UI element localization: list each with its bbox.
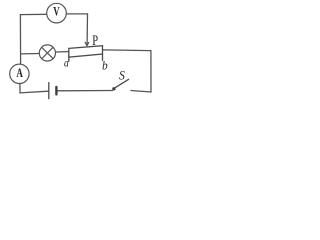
wire right edge vertical <box>150 51 152 92</box>
ammeter A circle <box>10 64 29 83</box>
wire top-right horizontal <box>66 13 87 15</box>
circuit schematic: battery, switch S, ammeter A, lamp, rheostat P (a,b), voltmeter V <box>0 0 164 109</box>
battery BT1 short plate (-) <box>55 87 57 94</box>
svg-text:A: A <box>16 67 23 81</box>
switch S pivot dot <box>112 87 115 90</box>
wire bottom right (switch to corner) <box>131 91 151 93</box>
switch S lever <box>115 79 128 87</box>
lamp X stroke 1 <box>42 47 53 58</box>
wire ammeter to bottom-left corner <box>19 83 21 93</box>
wire wiper shaft vertical <box>86 14 88 45</box>
rheostat wiper arrow P <box>85 42 89 46</box>
voltmeter V circle <box>47 3 67 23</box>
rheostat R1 body <box>69 46 103 58</box>
svg-text:a: a <box>64 58 69 70</box>
wire left edge vertical <box>19 15 21 65</box>
rheostat terminal post a <box>68 57 70 61</box>
lamp L1 circle <box>39 45 55 61</box>
svg-text:V: V <box>53 5 60 19</box>
wire top-left horizontal <box>20 13 46 15</box>
wire bottom left (corner to battery) <box>20 91 48 93</box>
rheostat terminal post b <box>102 54 104 60</box>
wire lamp branch <box>21 53 40 55</box>
lamp X stroke 2 <box>42 47 53 58</box>
wire bottom middle (battery to switch) <box>58 90 113 92</box>
wire lamp to rheostat <box>55 51 68 53</box>
svg-text:S: S <box>119 68 125 82</box>
battery BT1 long plate (+) <box>48 83 50 99</box>
svg-text:P: P <box>92 32 98 48</box>
wire rheostat b to right edge <box>103 49 151 52</box>
svg-text:b: b <box>102 59 108 73</box>
